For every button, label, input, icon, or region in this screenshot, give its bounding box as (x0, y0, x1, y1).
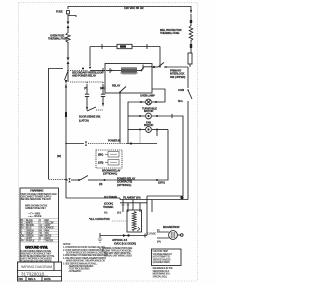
secondary interlock switch (67, 70, 68, 71)
svg-text:VOLTAGE AREA DO: VOLTAGE AREA DO (153, 253, 172, 256)
svg-text:(F): (F) (157, 230, 160, 232)
svg-text:(GRY): (GRY) (158, 181, 165, 185)
svg-text:COM: COM (178, 88, 185, 92)
svg-text:DATE: DATE (44, 277, 51, 281)
svg-text:QUALIFIED PERS.: QUALIFIED PERS. (153, 261, 171, 264)
svg-text:TAN: TAN (45, 232, 49, 235)
svg-text:WHEN SERVICING THIS APPLIANCE: WHEN SERVICING THIS APPLIANCE OR (66, 260, 105, 263)
wire into control box (90, 70, 105, 72)
warning box (20, 188, 59, 262)
svg-text:PURPLE: PURPLE (26, 241, 35, 243)
svg-text:SW. (UPPER): SW. (UPPER) (170, 75, 185, 79)
varistor resistor coil inside (106, 70, 121, 72)
tall rect component (188, 53, 192, 64)
svg-text:REFERENCE IN THE: REFERENCE IN THE (153, 268, 174, 270)
HV transformer box with coil (127, 210, 142, 232)
svg-text:MAGNETRON: MAGNETRON (163, 225, 179, 229)
left loop box wire (49, 69, 64, 180)
svg-text:HIGH VOLTAGE COMPONENTS CAN: HIGH VOLTAGE COMPONENTS CAN (21, 193, 57, 196)
brown relay dashed box (96, 150, 122, 168)
bottom right text block A (99, 247, 133, 258)
primary interlock upper wire (152, 66, 158, 68)
svg-text:PR: PR (21, 241, 24, 243)
door sense switch lower (89, 67, 91, 69)
monitor wire (49, 179, 67, 181)
svg-text:(R): (R) (99, 182, 103, 186)
connector blob (190, 44, 192, 48)
svg-text:2.1 KVDC: 2.1 KVDC (147, 234, 157, 236)
svg-text:BLACK: BLACK (26, 219, 33, 222)
svg-text:THERMAL FUSE: THERMAL FUSE (48, 36, 68, 40)
svg-text:—●— SPLICE: —●— SPLICE (28, 215, 42, 218)
connector on L1 (67, 58, 70, 61)
svg-text:—☐— WIRE: —☐— WIRE (28, 212, 41, 215)
connector terminal on L1 (67, 22, 70, 25)
svg-text:(BU): (BU) (117, 213, 122, 215)
svg-text:5. SEE SERVICE MANUAL FOR ALL:: 5. SEE SERVICE MANUAL FOR ALL: (63, 262, 98, 265)
svg-text:NOTES:: NOTES: (63, 244, 71, 246)
svg-text:CABINET BASE ONLY: CABINET BASE ONLY (25, 207, 46, 210)
wire supply top 120VAC (68, 7, 191, 11)
fan return vertical (157, 130, 168, 181)
control board box (105, 64, 152, 94)
svg-text:NOT ATTEMPT TO: NOT ATTEMPT TO (153, 256, 171, 259)
connector tick (146, 44, 148, 49)
wire L1 mid (67, 42, 69, 58)
bottom wire from L1 (66, 197, 120, 199)
svg-text:SPECIAL SKILL: SPECIAL SKILL (153, 275, 168, 278)
svg-text:CAUTION: HIGH: CAUTION: HIGH (153, 250, 169, 253)
svg-text:N.O.: N.O. (178, 99, 183, 103)
svg-text:ORANGE: ORANGE (45, 227, 55, 230)
border frame (19, 3, 198, 282)
primary interlock switch com/no (187, 67, 189, 88)
svg-text:(OR): (OR) (98, 161, 103, 165)
svg-text:P/N: P/N (19, 277, 23, 281)
svg-text:OVEN LAMP: OVEN LAMP (140, 94, 155, 98)
mechanical linkage dashed (70, 70, 88, 72)
thermal fuse (oven fuse) zigzag (66, 33, 70, 43)
svg-text:DARK: DARK (45, 237, 51, 240)
svg-text:*ALL CAPACITOR: *ALL CAPACITOR (89, 217, 110, 221)
svg-text:(W): (W) (57, 154, 61, 158)
svg-text:(LATCH): (LATCH) (79, 119, 89, 123)
door sense switch (87, 107, 96, 111)
svg-text:FUSE: FUSE (56, 10, 63, 14)
svg-text:GRAY: GRAY (45, 224, 51, 227)
svg-text:4. USE ONLY EXACT REPLACEMENT: 4. USE ONLY EXACT REPLACEMENT PARTS (63, 257, 106, 260)
svg-text:SERVICING OF A: SERVICING OF A (153, 270, 170, 273)
NOTES block (63, 244, 108, 273)
svg-text:POWER IN: POWER IN (108, 139, 121, 143)
svg-text:RELAY: RELAY (112, 84, 120, 88)
svg-text:! WARNING: ! WARNING (30, 189, 43, 193)
svg-text:DOOR SENSE SW.: DOOR SENSE SW. (79, 115, 101, 119)
HV rails (147, 195, 183, 197)
svg-text:BEFORE SERVICING THE UNIT: BEFORE SERVICING THE UNIT (21, 199, 52, 201)
svg-text:TRACER: TRACER (45, 240, 54, 243)
svg-text:FILAMENT (3V): FILAMENT (3V) (123, 196, 141, 200)
svg-text:KVDC (H.V. DIODE): KVDC (H.V. DIODE) (114, 241, 136, 245)
HV verticals (122, 200, 124, 213)
svg-text:WIRING DIAGRAM: WIRING DIAGRAM (21, 265, 52, 269)
wire L1 lower (65, 144, 67, 199)
svg-text:TRANSF.: TRANSF. (103, 205, 114, 209)
svg-text:(W): (W) (104, 213, 108, 215)
fuse FU1 on left line (67, 11, 70, 14)
svg-text:GROUND SYM.: GROUND SYM. (25, 245, 48, 249)
dense paragraph (20, 250, 54, 263)
svg-text:- SCHEMATIC: - SCHEMATIC (68, 270, 82, 273)
time protector thermal fuse zigzag (189, 26, 193, 45)
wire fan to cook rail dashed (139, 132, 141, 144)
svg-text:REV A: REV A (28, 277, 36, 281)
wire FU2 branch (90, 46, 117, 48)
svg-text:ACTUAL UNIT WIRING USED: ACTUAL UNIT WIRING USED (104, 255, 132, 258)
bottom right boxed text block B (152, 249, 182, 266)
wire lamp left (128, 102, 139, 144)
dashed control line (70, 82, 103, 84)
svg-text:120 VAC 60 HZ: 120 VAC 60 HZ (124, 6, 144, 10)
svg-text:SERVICE UNLESS: SERVICE UNLESS (153, 259, 171, 261)
HV diode wire with ground (100, 235, 147, 237)
cook wire (66, 143, 84, 145)
color code table (20, 219, 59, 242)
svg-text:(OPTIONAL): (OPTIONAL) (103, 172, 117, 176)
fuse FU2 (117, 44, 132, 48)
svg-text:THERMAL FUSE: THERMAL FUSE (160, 31, 180, 35)
svg-text:(FA): (FA) (157, 241, 161, 244)
title block (18, 262, 62, 281)
svg-text:3. DISCONNECT POWER BEFORE SER: 3. DISCONNECT POWER BEFORE SERVICING (63, 255, 108, 257)
splice connector on L1 (65, 112, 67, 117)
svg-text:MICROWAVE IS A: MICROWAVE IS A (153, 273, 171, 276)
svg-text:AND POWER RELAY: AND POWER RELAY (72, 73, 96, 77)
svg-text:(BK): (BK) (98, 153, 103, 157)
right line top: arrow connector (190, 10, 192, 14)
svg-text:MOTOR: MOTOR (144, 109, 153, 113)
svg-text:(OPTIONAL): (OPTIONAL) (117, 183, 131, 187)
